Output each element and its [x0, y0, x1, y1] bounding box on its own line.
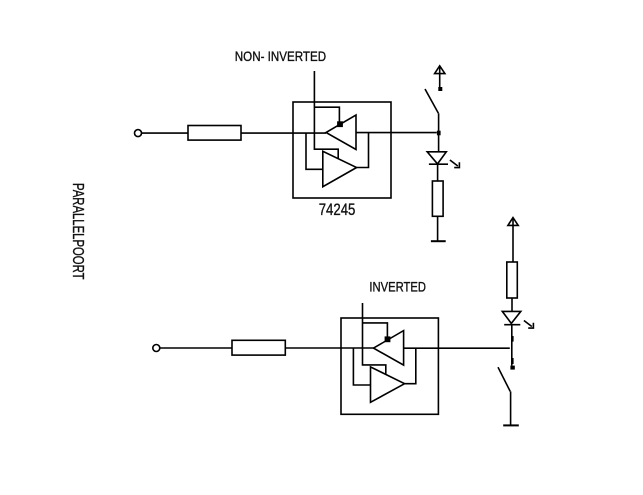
U2 buffer B (right-pointing): [371, 367, 405, 402]
wire label pointer into U2: [363, 303, 386, 374]
node B junction mark upper: [511, 336, 513, 342]
IC U2 74245 box: [341, 318, 438, 414]
resistor R1: [188, 126, 241, 141]
wire U2 buffer B input tap: [353, 348, 370, 385]
LED D1 emission arrow: [450, 160, 458, 166]
wire R4 to LED D2: [511, 298, 513, 311]
wire R1 to U1 input: [241, 132, 326, 134]
ground GND2: [503, 424, 519, 426]
U1 enable square A: [338, 122, 342, 126]
node B junction mark lower: [511, 358, 513, 364]
wire J1 to R1: [141, 132, 188, 134]
switch S2 contact: [510, 366, 514, 370]
U2 buffer A (left-pointing): [374, 331, 404, 366]
wire label pointer into U1: [314, 71, 338, 159]
wire U2 buffer B output: [405, 348, 416, 384]
resistor R4: [507, 262, 518, 298]
wire buffer B output: [357, 132, 369, 167]
wire R3 to U2 input: [285, 347, 373, 349]
wire enable branch U1: [314, 107, 339, 122]
wire S2 to ground: [510, 391, 512, 425]
LED D2: [502, 311, 521, 323]
ground GND1: [431, 240, 446, 242]
power arrow P2: [512, 218, 514, 262]
svg-text:74245: 74245: [319, 200, 356, 219]
svg-text:NON- INVERTED: NON- INVERTED: [235, 48, 326, 64]
power arrow P1: [439, 67, 441, 88]
wire R2 to ground: [437, 216, 439, 241]
switch S1 contact: [438, 87, 442, 91]
resistor R2: [432, 181, 443, 216]
wire S1 to LED D1: [438, 113, 440, 151]
IC U1 74245 box: [293, 102, 391, 198]
wire buffer B input tap: [306, 133, 323, 170]
terminal J1: [135, 130, 142, 137]
LED D1: [427, 152, 446, 164]
U1 buffer B (right-pointing): [323, 151, 357, 186]
svg-text:PARALLELPOORT: PARALLELPOORT: [69, 183, 86, 280]
wire D2 through node B to switch S2: [511, 325, 513, 366]
wire U2 output to node B: [404, 347, 510, 349]
U1 buffer A (left-pointing): [326, 115, 356, 150]
LED D2 emission arrow: [524, 321, 532, 327]
svg-text:INVERTED: INVERTED: [369, 279, 426, 295]
wire D1 to R2: [437, 164, 439, 181]
wire enable branch U2: [363, 323, 388, 338]
switch S1 lever: [425, 89, 438, 113]
switch S2 lever: [498, 367, 510, 391]
terminal J2: [153, 345, 160, 352]
U2 enable square A: [385, 337, 389, 341]
wire J2 to R3: [160, 347, 232, 349]
wire U1 output to node A: [356, 132, 437, 134]
node A junction: [437, 131, 441, 136]
resistor R3: [232, 340, 285, 355]
